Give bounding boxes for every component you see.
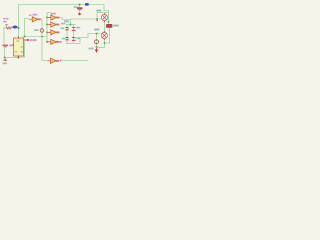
wire to lamp1 — [71, 18, 101, 20]
teal label top-left — [3, 21, 7, 22]
wire caps top horizontal — [66, 24, 76, 26]
lamp L2 bottom pin — [103, 39, 105, 41]
gate U1E extra out mark — [60, 41, 62, 43]
purple label caps — [61, 23, 65, 25]
wire below C5 — [79, 10, 81, 13]
gate U1F — [47, 58, 59, 63]
lamp L2 — [101, 32, 107, 38]
capacitor C3 plates — [66, 38, 69, 40]
gate U1B — [48, 15, 60, 20]
wire resistor horizontal — [3, 27, 14, 29]
wire cap column 1 — [66, 25, 68, 44]
teal label left of C1 — [61, 27, 65, 29]
teal label right of red box — [113, 25, 119, 27]
wire cap branch vertical — [79, 5, 81, 8]
wire battery top vertical — [3, 28, 5, 45]
wire gate0 input feed — [25, 19, 30, 37]
resistor R1 — [6, 27, 12, 29]
crystal X1 (blue body) — [12, 26, 17, 29]
lamp L2 top pin — [103, 31, 105, 33]
IC U2 555 box — [14, 38, 24, 56]
pin top U2 — [18, 37, 20, 39]
wire gateE input horizontal — [42, 60, 47, 62]
teal label GND — [3, 62, 8, 64]
wire fuse bottom vertical — [105, 28, 110, 43]
wire top rail — [19, 4, 105, 6]
wire lamp right vertical — [108, 11, 110, 25]
capacitor C1 plates — [66, 28, 69, 30]
blue probe on rail — [85, 3, 89, 6]
ground below C5 — [78, 13, 81, 16]
wire bottom right horizontal — [97, 47, 105, 49]
wire gateA out jog — [59, 18, 71, 25]
wire horizontal mid feed — [47, 12, 51, 14]
teal label above lamp L2 — [94, 29, 99, 31]
green text inside U2 — [15, 40, 23, 52]
teal label right of C4 — [76, 37, 80, 39]
gate U1E — [48, 39, 60, 44]
lamp L1 top pin — [104, 13, 106, 15]
junction dots — [4, 4, 110, 59]
wire left vertical from rail to U2 — [18, 5, 20, 37]
ground symbol bottom-left — [4, 59, 8, 61]
teal label left of probe ring — [34, 29, 38, 31]
battery B1 — [3, 45, 9, 47]
wire junction up to lamp feed — [96, 13, 98, 20]
red text R1 label — [5, 24, 8, 25]
LED D1 ring — [95, 40, 99, 44]
purple label B1 — [9, 45, 14, 47]
lamp L1 bottom pin — [104, 21, 106, 23]
fuse/battery red box — [106, 24, 112, 27]
wire staircase right — [80, 34, 101, 44]
teal label left of D2 — [89, 48, 94, 50]
gate U1C — [48, 22, 60, 27]
red text left above gate U1A — [29, 15, 32, 17]
teal label near gateA jog — [64, 20, 69, 22]
teal label between rows — [62, 38, 66, 40]
wire 555 output horizontal — [25, 36, 48, 38]
wire rail corner down right — [104, 5, 109, 11]
gate U1A buffer left — [29, 17, 41, 22]
wire caps bottom horizontal — [66, 43, 80, 45]
teal label above lamp wire — [96, 10, 101, 12]
wire lamp1 to lamp2 vertical — [104, 22, 106, 33]
wire gate0 output vertical long — [41, 19, 43, 61]
wire lamp2 bottom vertical — [104, 39, 106, 48]
pin left U2 tick — [13, 44, 14, 45]
wire cap column 2 — [73, 25, 75, 44]
teal label left of C5 — [74, 6, 78, 8]
background — [0, 0, 120, 66]
teal label right of C2 — [76, 27, 80, 29]
purple label above gate U1B — [51, 13, 56, 15]
purple label above gate U1A — [32, 14, 37, 16]
wire led vertical — [96, 34, 98, 48]
red state mark below junction — [96, 20, 98, 21]
red probe ring on gate0 output wire — [40, 29, 43, 33]
lamp L1 — [101, 14, 107, 20]
pin bottom U2 — [18, 56, 20, 58]
capacitor C4 (electrolytic) — [72, 38, 76, 41]
wire battery bottom vertical — [4, 48, 6, 58]
purple label right of U2 — [30, 39, 37, 41]
wire box right vertical — [21, 41, 25, 57]
wire feed line vertical — [46, 13, 48, 43]
LED D2 arrow below wire — [95, 48, 98, 53]
wire bottom long horizontal — [62, 60, 88, 62]
capacitor C5 on top rail — [77, 8, 83, 10]
pin right U2 with state — [24, 39, 29, 41]
red state square bottom wire — [60, 60, 62, 62]
capacitor C2 (electrolytic) — [72, 28, 76, 31]
wire bottom horizontal to U2 — [5, 57, 19, 59]
wire lamp feed horizontal — [97, 12, 109, 14]
purple label top-left — [3, 18, 5, 20]
gate U1D — [48, 30, 60, 35]
